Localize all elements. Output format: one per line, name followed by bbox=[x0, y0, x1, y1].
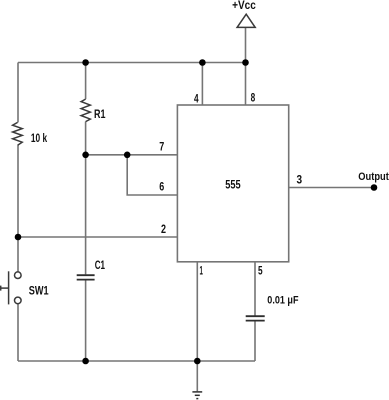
svg-text:C1: C1 bbox=[95, 258, 105, 272]
svg-text:10 k: 10 k bbox=[31, 131, 47, 145]
svg-text:2: 2 bbox=[161, 224, 166, 236]
svg-text:+Vcc: +Vcc bbox=[232, 0, 256, 12]
svg-text:6: 6 bbox=[159, 182, 164, 194]
svg-text:7: 7 bbox=[159, 142, 164, 154]
svg-text:1: 1 bbox=[200, 266, 204, 278]
svg-text:4: 4 bbox=[194, 94, 199, 106]
svg-text:5: 5 bbox=[258, 266, 263, 278]
svg-text:Output: Output bbox=[358, 171, 389, 183]
svg-text:0.01 μF: 0.01 μF bbox=[267, 295, 299, 307]
svg-text:SW1: SW1 bbox=[29, 284, 49, 298]
svg-text:R1: R1 bbox=[94, 107, 106, 121]
svg-text:3: 3 bbox=[297, 175, 303, 187]
svg-text:555: 555 bbox=[225, 178, 241, 192]
svg-text:8: 8 bbox=[251, 93, 256, 105]
